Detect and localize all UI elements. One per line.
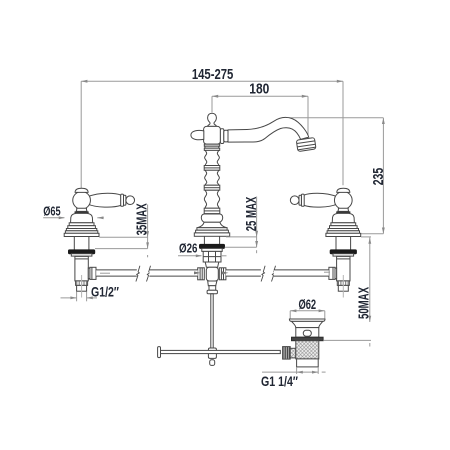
baluster segment 3	[204, 190, 219, 208]
label G1/2 extension lines	[76, 292, 78, 302]
left handle sphere top cap	[75, 188, 88, 192]
drain threaded body	[296, 341, 319, 359]
label Ø26 arrow	[178, 255, 202, 257]
dimension 50MAX dash	[369, 343, 371, 347]
ring group 3	[204, 208, 220, 213]
drain tailpiece G1 1/4	[297, 359, 319, 367]
right handle neck dark band	[336, 211, 350, 213]
left supply pipe segment B	[149, 270, 197, 276]
left handle bell ring 2	[68, 226, 96, 229]
left handle lever collar ridge 1	[121, 194, 124, 206]
right handle supply nipple G1/2	[338, 285, 348, 291]
right pipe centre tick	[324, 271, 330, 273]
svg-text:180: 180	[249, 80, 269, 97]
right handle threaded shank	[335, 237, 337, 250]
body left knob	[191, 130, 204, 139]
ring group 1	[204, 166, 220, 171]
left handle lever end knob	[126, 196, 135, 205]
pillar mounting nut	[203, 251, 221, 262]
right handle bell ring 3	[328, 229, 358, 231]
drain rim Ø62	[289, 319, 325, 321]
label G1/2 dimension line	[61, 297, 77, 299]
label G1 1/4 dimension line	[262, 371, 318, 373]
right handle handle bell dome	[332, 213, 354, 222]
dimension 50MAX bottom extension	[323, 339, 371, 341]
right handle side outlet nut	[329, 267, 335, 279]
label Ø26 right dash	[222, 255, 227, 257]
svg-text:25 MAX: 25 MAX	[243, 197, 260, 232]
lift rod tail cap	[210, 360, 215, 366]
left handle bell base plate	[64, 233, 99, 236]
right handle sphere top cap	[337, 188, 350, 192]
spout attachment rib 2	[224, 130, 228, 142]
dimension 50MAX line	[369, 238, 371, 323]
left handle bell skirt	[65, 231, 97, 234]
dimension 180 line	[212, 95, 308, 97]
lift rod guide	[209, 286, 216, 291]
left handle washer plate	[71, 254, 92, 256]
baluster segment 1	[205, 150, 220, 165]
pillar shank	[203, 236, 205, 244]
dimension 25MAX dash	[256, 250, 258, 253]
label Ø65 right arrow	[97, 217, 104, 219]
left handle valve centerline	[81, 275, 83, 298]
cross right connector	[219, 268, 226, 280]
svg-text:Ø62: Ø62	[298, 297, 316, 312]
left handle lever collar ridge 2	[124, 195, 126, 205]
right handle bell skirt	[327, 231, 359, 234]
left handle handle neck	[76, 208, 87, 211]
right handle valve sphere	[334, 191, 352, 209]
left pipe centre tick	[100, 272, 110, 274]
right handle gasket flange	[330, 250, 356, 254]
right pipe break marks	[261, 266, 265, 282]
pillar bell band	[197, 228, 227, 231]
left handle threaded shank	[73, 237, 75, 250]
column flange rings	[204, 144, 219, 146]
left handle side outlet nut	[90, 267, 96, 279]
spout attachment rib 1	[220, 129, 223, 144]
label Ø62 extensions	[289, 311, 291, 319]
dimension 145-275 line	[81, 80, 343, 82]
svg-text:235: 235	[370, 168, 387, 186]
right handle washer plate	[333, 254, 354, 256]
right handle lever collar ridge 2	[299, 195, 301, 205]
drain left nut knurled	[283, 347, 291, 360]
left handle valve sphere	[73, 191, 91, 209]
label Ø65 left arrow	[43, 217, 64, 219]
label G1 1/4 dash	[322, 371, 326, 373]
svg-text:G1 1/4″: G1 1/4″	[261, 374, 298, 389]
right handle lever	[304, 193, 337, 207]
right supply pipe segment B	[274, 270, 329, 276]
left handle lever	[88, 193, 121, 207]
left pipe break marks	[136, 266, 140, 282]
lift rod joint block	[208, 348, 216, 358]
overflow slot	[303, 330, 311, 336]
left supply pipe segment A	[96, 270, 137, 276]
pop-up lift rod	[211, 294, 213, 348]
right handle lever collar ridge 1	[301, 194, 304, 206]
pillar bell skirt	[196, 230, 229, 233]
dimension 35MAX line	[147, 205, 149, 249]
label Ø62 dimension line	[290, 310, 325, 312]
drain left collar	[290, 348, 296, 358]
right handle handle neck	[338, 208, 349, 211]
dimension 145-275 left extension	[80, 81, 82, 189]
dimension 25MAX upper extension	[226, 236, 257, 238]
dimension 25MAX line	[256, 197, 258, 248]
dimension 145-275 right extension	[342, 81, 344, 185]
dimension 235 bottom extension	[360, 233, 384, 235]
svg-text:G1/2″: G1/2″	[91, 284, 119, 299]
dimension 50MAX top extension	[361, 236, 371, 238]
cross fitting taper	[205, 262, 219, 267]
pillar washer plate	[202, 248, 222, 251]
left handle bell ring 3	[66, 229, 96, 231]
pillar gasket flange	[200, 244, 225, 248]
pillar bell cushion	[201, 214, 222, 222]
left handle supply nipple G1/2	[77, 285, 87, 291]
left handle handle bell dome	[71, 213, 93, 222]
horizontal linkage bar	[159, 350, 280, 353]
right handle bell base plate	[326, 233, 361, 236]
spout aerator outlet	[296, 137, 316, 151]
pillar bell base plate	[194, 233, 229, 236]
flow arrow left	[194, 271, 201, 274]
baluster segment 2	[205, 170, 220, 185]
left handle gasket flange	[69, 250, 95, 254]
svg-text:145-275: 145-275	[192, 66, 234, 83]
lift rod collar	[207, 290, 217, 294]
drain rim funnel	[292, 321, 323, 327]
right handle bell ring 2	[330, 226, 358, 229]
dimension 35MAX upper extension	[99, 236, 147, 238]
cross left connector	[198, 268, 205, 280]
left handle bell ring 1	[69, 223, 94, 226]
label G1 1/4 extensions	[296, 367, 298, 374]
left handle side outlet boss	[88, 268, 93, 279]
dimension 35MAX dash	[147, 255, 149, 257]
left handle threaded collar	[76, 281, 88, 286]
dimension 35MAX lower extension	[95, 248, 148, 250]
cross lower taper	[208, 281, 217, 286]
dimension 235 top extension	[288, 117, 383, 119]
spout body block	[204, 126, 221, 144]
right handle bell ring 1	[331, 223, 356, 226]
drain deck flange	[292, 337, 324, 341]
flow arrow right	[222, 271, 229, 274]
dimension 180 right extension	[307, 96, 309, 137]
right handle side outlet boss	[332, 268, 337, 279]
dimension 235 line	[382, 118, 384, 234]
svg-text:35MAX: 35MAX	[134, 203, 151, 235]
drain upper body	[296, 328, 319, 338]
cross fitting body	[206, 267, 218, 281]
spout tube and swan neck	[228, 117, 309, 142]
linkage bar left cap	[158, 347, 161, 358]
dimension 25MAX lower extension	[225, 246, 257, 248]
pillar bell trumpet flare	[197, 222, 227, 227]
right handle valve body	[337, 256, 350, 281]
svg-text:Ø65: Ø65	[43, 205, 60, 219]
pillar finial ball	[208, 113, 217, 126]
ring group 2	[204, 185, 220, 190]
right supply pipe segment A	[226, 270, 261, 276]
left handle valve body	[75, 256, 88, 281]
right handle valve centerline	[342, 275, 344, 298]
right handle lever end knob	[290, 196, 299, 205]
svg-text:50MAX: 50MAX	[356, 287, 373, 319]
left handle neck dark band	[75, 211, 89, 213]
dimension 180 left extension	[211, 96, 213, 112]
right handle threaded collar	[337, 281, 349, 286]
svg-text:Ø26: Ø26	[179, 242, 197, 256]
